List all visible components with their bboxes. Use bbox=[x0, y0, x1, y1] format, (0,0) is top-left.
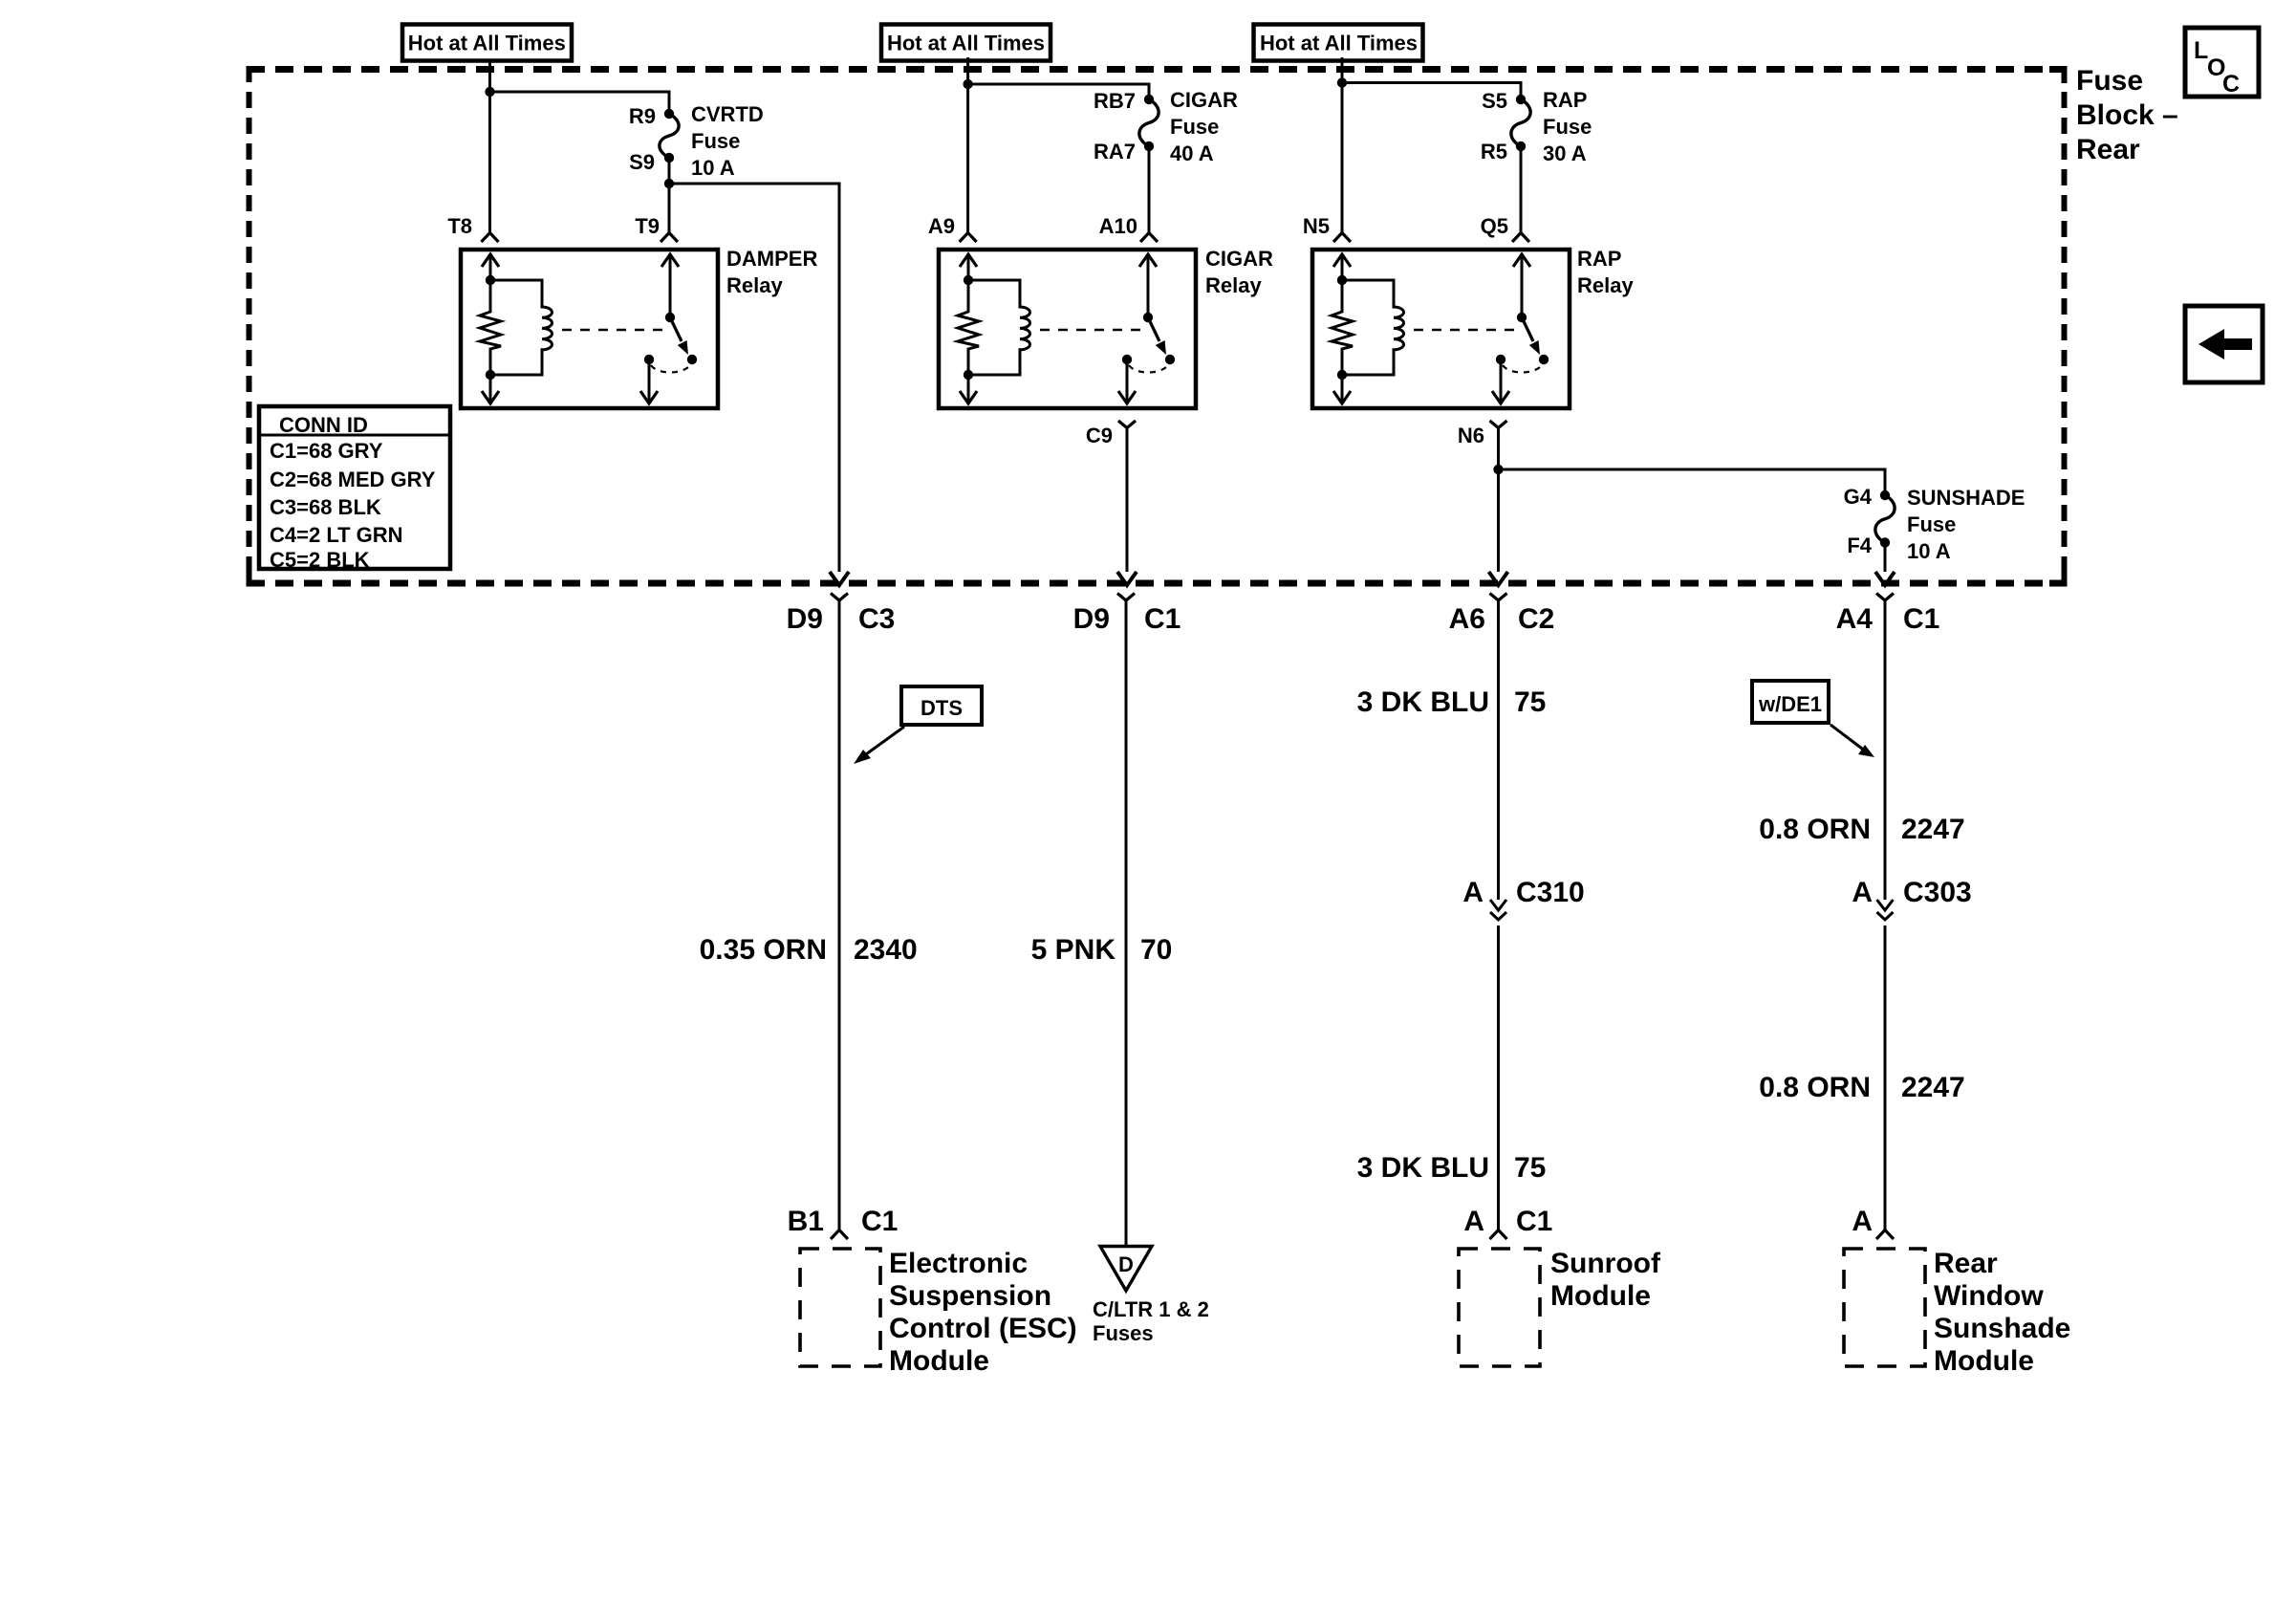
svg-text:CONN ID: CONN ID bbox=[279, 413, 368, 437]
svg-text:Fuse: Fuse bbox=[691, 129, 740, 153]
svg-text:3 DK BLU: 3 DK BLU bbox=[1357, 686, 1489, 718]
svg-text:T8: T8 bbox=[447, 214, 472, 238]
wire: battery feed col 1 (T8) bbox=[488, 61, 491, 233]
fuse block border corner piece bottom-left bbox=[247, 570, 252, 586]
connector caret N5 bbox=[1333, 233, 1351, 243]
LOC reference box bbox=[2185, 28, 2259, 97]
relay DAMPER coil (inductor) bbox=[490, 280, 552, 375]
svg-text:CVRTD: CVRTD bbox=[691, 102, 764, 126]
relay CIGAR pin 2 arrow (coil -) bbox=[967, 375, 970, 403]
relay RAP NO contact node bbox=[1539, 355, 1549, 364]
relay CIGAR NO contact node bbox=[1165, 355, 1175, 364]
connector caret T9 bbox=[661, 233, 678, 243]
wire 0.8 ORN 2247 upper bbox=[1884, 608, 1887, 900]
relay DAMPER NO contact node bbox=[687, 355, 697, 364]
wire: S9 junction to ESC feed drop bbox=[669, 184, 839, 572]
relay CIGAR switch arm bbox=[1148, 317, 1159, 341]
relay CIGAR switch pivot node bbox=[1143, 313, 1153, 322]
relay RAP dashed actuation link bbox=[1414, 329, 1516, 332]
svg-text:Sunshade: Sunshade bbox=[1934, 1313, 2070, 1344]
svg-text:A10: A10 bbox=[1099, 214, 1137, 238]
power label box: Hot at All Times bbox=[402, 25, 572, 61]
w/DE1 arrow bbox=[1830, 725, 1866, 751]
svg-text:Rear: Rear bbox=[2076, 134, 2140, 165]
svg-text:70: 70 bbox=[1140, 934, 1172, 966]
relay CIGAR NC/output contact node bbox=[1122, 355, 1132, 364]
svg-text:DAMPER: DAMPER bbox=[726, 247, 817, 271]
relay DAMPER coil bottom node bbox=[486, 370, 495, 380]
svg-text:L: L bbox=[2194, 37, 2208, 64]
relay RAP box bbox=[1312, 250, 1570, 408]
svg-text:0.8 ORN: 0.8 ORN bbox=[1759, 814, 1871, 845]
svg-text:D9: D9 bbox=[787, 603, 823, 635]
wire 3 DK BLU 75 lower bbox=[1497, 925, 1500, 1230]
svg-text:0.35 ORN: 0.35 ORN bbox=[700, 934, 827, 966]
svg-text:T9: T9 bbox=[635, 214, 660, 238]
Electronic Suspension Control (ESC) Module dashed box bbox=[800, 1249, 880, 1366]
svg-text:5 PNK: 5 PNK bbox=[1031, 934, 1116, 966]
relay CIGAR coil (inductor) bbox=[968, 280, 1030, 375]
svg-text:C2=68 MED GRY: C2=68 MED GRY bbox=[270, 468, 436, 491]
connector A4/C1 (Y) below border bbox=[1876, 594, 1894, 601]
svg-text:2247: 2247 bbox=[1901, 1072, 1965, 1103]
connector N6 (Y) below RAP relay bbox=[1490, 421, 1507, 428]
wire: branch to RAP fuse bbox=[1342, 83, 1521, 100]
wire: branch to CIGAR fuse bbox=[968, 84, 1149, 99]
svg-text:30 A: 30 A bbox=[1543, 142, 1587, 165]
svg-text:CIGAR: CIGAR bbox=[1170, 88, 1238, 112]
node: col 3 branch junction bbox=[1337, 77, 1347, 87]
svg-text:Module: Module bbox=[1934, 1345, 2034, 1377]
connector D9/C3 (Y) below border bbox=[831, 594, 848, 601]
svg-text:DTS: DTS bbox=[921, 696, 963, 720]
svg-text:N6: N6 bbox=[1458, 424, 1484, 447]
svg-text:Block –: Block – bbox=[2076, 99, 2178, 131]
svg-text:Relay: Relay bbox=[726, 273, 783, 297]
fuse RAP 30 A bbox=[1516, 95, 1526, 104]
svg-text:Fuse: Fuse bbox=[1907, 512, 1956, 536]
relay DAMPER switch arm bbox=[670, 317, 682, 341]
wire 0.8 ORN 2247 lower bbox=[1884, 925, 1887, 1230]
CONN ID legend box bbox=[259, 406, 450, 569]
wire: C9 to border bbox=[1126, 436, 1129, 572]
svg-text:Module: Module bbox=[1550, 1280, 1651, 1312]
navigation arrow box bbox=[2185, 306, 2263, 382]
node: col 1 branch junction bbox=[485, 87, 494, 97]
svg-text:C303: C303 bbox=[1903, 877, 1972, 908]
relay RAP switch pivot node bbox=[1517, 313, 1527, 322]
relay CIGAR pin 1 arrow (coil +) bbox=[967, 255, 970, 280]
svg-text:C4=2 LT GRN: C4=2 LT GRN bbox=[270, 523, 403, 547]
svg-text:B1: B1 bbox=[788, 1206, 824, 1237]
relay RAP pin 2 arrow (coil -) bbox=[1341, 375, 1344, 403]
Sunroof Module dashed box bbox=[1459, 1249, 1540, 1366]
wire: RA7 to A10 bbox=[1148, 146, 1151, 233]
svg-text:A6: A6 bbox=[1449, 603, 1485, 635]
relay DAMPER output pin arrow bbox=[648, 359, 651, 403]
svg-text:Relay: Relay bbox=[1205, 273, 1262, 297]
inline connector C303 bbox=[1877, 900, 1894, 910]
relay RAP coil (inductor) bbox=[1342, 280, 1404, 375]
svg-text:CIGAR: CIGAR bbox=[1205, 247, 1273, 271]
relay RAP output pin arrow bbox=[1500, 359, 1503, 403]
svg-text:Relay: Relay bbox=[1577, 273, 1634, 297]
relay DAMPER switch pivot node bbox=[665, 313, 675, 322]
svg-text:D9: D9 bbox=[1073, 603, 1110, 635]
relay CIGAR coil top node bbox=[964, 275, 973, 285]
svg-text:S5: S5 bbox=[1482, 89, 1507, 113]
svg-text:F4: F4 bbox=[1847, 533, 1872, 557]
svg-text:RB7: RB7 bbox=[1094, 89, 1136, 113]
svg-text:A: A bbox=[1852, 877, 1873, 908]
svg-text:C/LTR 1 & 2: C/LTR 1 & 2 bbox=[1093, 1297, 1209, 1321]
power label box: Hot at All Times bbox=[881, 25, 1051, 61]
fuse block border corner piece top-right bbox=[2062, 66, 2068, 83]
relay RAP coil bottom node bbox=[1337, 370, 1347, 380]
arrow: ESC feed crosses fuse block border bbox=[830, 572, 849, 585]
svg-text:Fuse: Fuse bbox=[2076, 65, 2143, 97]
relay RAP contact dashed arc bbox=[1503, 365, 1542, 373]
svg-text:Hot at All Times: Hot at All Times bbox=[887, 32, 1045, 55]
connector caret Q5 bbox=[1512, 233, 1529, 243]
relay CIGAR output pin arrow bbox=[1126, 359, 1129, 403]
wire: battery feed col 2 (A9) bbox=[966, 57, 969, 233]
power label box: Hot at All Times bbox=[1254, 25, 1423, 61]
svg-text:A9: A9 bbox=[928, 214, 955, 238]
connector caret into ESC module bbox=[831, 1230, 848, 1240]
svg-text:C1=68 GRY: C1=68 GRY bbox=[270, 439, 383, 463]
svg-text:N5: N5 bbox=[1303, 214, 1330, 238]
node: col 2 branch junction bbox=[963, 79, 972, 89]
wire: F4 to border bbox=[1884, 543, 1887, 573]
relay DAMPER contact dashed arc bbox=[651, 365, 690, 373]
svg-text:C9: C9 bbox=[1086, 424, 1113, 447]
fuse SUNSHADE 10 A bbox=[1880, 490, 1890, 500]
fuse CVRTD 10 A bbox=[664, 109, 674, 119]
fuse block - rear dashed border top bbox=[247, 66, 2066, 73]
wire: N6 down to junction bbox=[1497, 436, 1500, 572]
svg-text:2247: 2247 bbox=[1901, 814, 1965, 845]
connector caret A10 bbox=[1140, 233, 1158, 243]
relay DAMPER pin 2 arrow (coil -) bbox=[489, 375, 492, 403]
svg-text:C3: C3 bbox=[858, 603, 895, 635]
svg-text:C3=68 BLK: C3=68 BLK bbox=[270, 495, 381, 519]
wire 0.35 ORN 2340 bbox=[838, 608, 841, 1230]
connector caret into Sunroof module bbox=[1490, 1230, 1507, 1240]
wire: branch to CVRTD fuse bbox=[490, 92, 670, 114]
wire 5 PNK 70 bbox=[1125, 608, 1128, 1246]
relay DAMPER dashed actuation link bbox=[562, 329, 664, 332]
relay CIGAR dashed actuation link bbox=[1040, 329, 1142, 332]
relay DAMPER common pin arrow bbox=[669, 255, 672, 317]
svg-text:S9: S9 bbox=[629, 150, 655, 174]
svg-text:Sunroof: Sunroof bbox=[1550, 1248, 1661, 1279]
relay CIGAR common pin arrow bbox=[1147, 255, 1150, 317]
wire: battery feed col 3 (N5) bbox=[1341, 57, 1344, 233]
node: junction below S9 bbox=[664, 179, 674, 188]
relay RAP common pin arrow bbox=[1521, 255, 1524, 317]
svg-text:Hot at All Times: Hot at All Times bbox=[408, 32, 566, 55]
svg-text:Hot at All Times: Hot at All Times bbox=[1260, 32, 1418, 55]
svg-text:C2: C2 bbox=[1518, 603, 1554, 635]
relay RAP resistor bbox=[1332, 280, 1353, 375]
svg-text:R5: R5 bbox=[1481, 140, 1507, 163]
svg-text:RAP: RAP bbox=[1577, 247, 1621, 271]
svg-text:10 A: 10 A bbox=[1907, 539, 1951, 563]
svg-text:40 A: 40 A bbox=[1170, 142, 1214, 165]
svg-text:C310: C310 bbox=[1516, 877, 1585, 908]
CONN ID header separator bbox=[259, 434, 450, 437]
svg-text:A: A bbox=[1463, 1206, 1484, 1237]
svg-text:Q5: Q5 bbox=[1481, 214, 1508, 238]
splice triangle D bbox=[1100, 1247, 1152, 1292]
svg-text:75: 75 bbox=[1514, 1152, 1546, 1184]
svg-text:A4: A4 bbox=[1836, 603, 1874, 635]
svg-text:Suspension: Suspension bbox=[889, 1280, 1051, 1312]
fuse block - rear dashed border bottom bbox=[247, 580, 2066, 587]
wire: N6 junction to SUNSHADE fuse bbox=[1499, 469, 1886, 495]
connector C9 (Y) below CIGAR relay bbox=[1118, 421, 1136, 428]
svg-text:C1: C1 bbox=[1903, 603, 1939, 635]
relay RAP switch arm bbox=[1522, 317, 1533, 341]
wire: S9 to T9 bbox=[668, 158, 671, 233]
svg-text:RA7: RA7 bbox=[1094, 140, 1136, 163]
svg-text:3 DK BLU: 3 DK BLU bbox=[1357, 1152, 1489, 1184]
arrow: sunshade feed crosses border bbox=[1875, 572, 1895, 585]
wire 3 DK BLU 75 upper bbox=[1497, 608, 1500, 900]
svg-text:Fuse: Fuse bbox=[1170, 115, 1219, 139]
relay RAP coil top node bbox=[1337, 275, 1347, 285]
svg-text:G4: G4 bbox=[1844, 485, 1873, 509]
fuse block - rear dashed border right bbox=[2062, 66, 2068, 587]
svg-text:10 A: 10 A bbox=[691, 156, 735, 180]
relay DAMPER resistor bbox=[480, 280, 501, 375]
arrow: C9 wire crosses fuse block border bbox=[1117, 572, 1137, 585]
svg-text:A: A bbox=[1852, 1206, 1873, 1237]
connector caret T8 bbox=[482, 233, 499, 243]
connector A6/C2 (Y) below border bbox=[1490, 594, 1507, 601]
relay CIGAR contact dashed arc bbox=[1129, 365, 1168, 373]
relay DAMPER box bbox=[461, 250, 718, 408]
relay DAMPER coil top node bbox=[486, 275, 495, 285]
svg-text:Fuse: Fuse bbox=[1543, 115, 1592, 139]
relay DAMPER pin 1 arrow (coil +) bbox=[489, 255, 492, 280]
arrow: sunroof feed crosses border bbox=[1489, 572, 1508, 585]
connector caret A9 bbox=[960, 233, 977, 243]
relay RAP NC/output contact node bbox=[1496, 355, 1505, 364]
relay CIGAR box bbox=[939, 250, 1196, 408]
svg-text:Module: Module bbox=[889, 1345, 989, 1377]
inline connector C310 bbox=[1490, 900, 1506, 910]
relay RAP pin 1 arrow (coil +) bbox=[1341, 255, 1344, 280]
svg-text:75: 75 bbox=[1514, 686, 1546, 718]
wire: R5 to Q5 bbox=[1520, 146, 1523, 233]
svg-text:0.8 ORN: 0.8 ORN bbox=[1759, 1072, 1871, 1103]
svg-text:C: C bbox=[2222, 71, 2240, 98]
connector D9/C1 (Y) below border bbox=[1117, 594, 1135, 601]
svg-text:Fuses: Fuses bbox=[1093, 1321, 1154, 1345]
svg-text:D: D bbox=[1118, 1252, 1134, 1276]
svg-text:A: A bbox=[1462, 877, 1484, 908]
svg-text:SUNSHADE: SUNSHADE bbox=[1907, 486, 2025, 510]
DTS arrow bbox=[859, 727, 904, 759]
DTS reference box bbox=[901, 686, 982, 725]
relay DAMPER NC/output contact node bbox=[644, 355, 654, 364]
svg-text:C1: C1 bbox=[1144, 603, 1180, 635]
fuse block border corner piece bottom-right bbox=[2062, 570, 2068, 586]
relay CIGAR resistor bbox=[958, 280, 979, 375]
svg-text:R9: R9 bbox=[629, 104, 656, 128]
svg-text:Rear: Rear bbox=[1934, 1248, 1998, 1279]
svg-text:RAP: RAP bbox=[1543, 88, 1587, 112]
relay CIGAR coil bottom node bbox=[964, 370, 973, 380]
node: N6 branch junction bbox=[1493, 465, 1503, 474]
w/DE1 reference box bbox=[1752, 681, 1829, 723]
svg-text:C1: C1 bbox=[861, 1206, 898, 1237]
svg-text:2340: 2340 bbox=[854, 934, 918, 966]
fuse CIGAR 40 A bbox=[1144, 95, 1154, 104]
svg-text:Electronic: Electronic bbox=[889, 1248, 1028, 1279]
Rear Window Sunshade Module dashed box bbox=[1844, 1249, 1925, 1366]
svg-text:Window: Window bbox=[1934, 1280, 2044, 1312]
fuse block - rear dashed border left bbox=[247, 66, 252, 587]
connector caret into Rear Window Sunshade module bbox=[1876, 1230, 1894, 1240]
svg-text:C1: C1 bbox=[1516, 1206, 1552, 1237]
svg-text:C5=2 BLK: C5=2 BLK bbox=[270, 548, 370, 572]
svg-text:Control (ESC): Control (ESC) bbox=[889, 1313, 1077, 1344]
svg-text:w/DE1: w/DE1 bbox=[1758, 692, 1822, 716]
